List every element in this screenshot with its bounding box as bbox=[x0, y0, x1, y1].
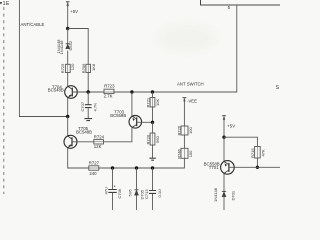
svg-text:R727: R727 bbox=[89, 161, 100, 166]
svg-text:120: 120 bbox=[70, 63, 75, 70]
node base/R706 junction bbox=[87, 90, 90, 93]
node junction +5V rail bbox=[66, 27, 69, 30]
wire T705 emitter to rail bbox=[68, 148, 89, 168]
svg-text:240: 240 bbox=[89, 171, 97, 176]
svg-text:1N4148: 1N4148 bbox=[213, 187, 218, 202]
resistor R715 47K bbox=[255, 147, 261, 159]
svg-text:R721: R721 bbox=[145, 97, 150, 107]
svg-text:R746: R746 bbox=[177, 148, 182, 158]
node ANT junction bbox=[66, 115, 69, 118]
wire R715 to base rail bbox=[256, 158, 258, 167]
resistor R721 10K bbox=[152, 92, 154, 98]
svg-text:C706: C706 bbox=[117, 188, 122, 198]
resistor R727 240 bbox=[89, 166, 99, 170]
wire T704 emitter down to ANT node bbox=[67, 98, 69, 117]
wire VEE to R726 bbox=[183, 101, 185, 126]
svg-text:R723: R723 bbox=[104, 84, 115, 89]
node +5V junction bbox=[222, 136, 225, 139]
svg-text:R726: R726 bbox=[177, 125, 182, 135]
node C706 junction bbox=[111, 166, 114, 169]
wire T703 collector up to rail bbox=[131, 92, 133, 116]
wire down to T705 bbox=[67, 117, 69, 137]
wire R720 to ground bbox=[152, 145, 154, 158]
svg-text:1E: 1E bbox=[3, 1, 10, 7]
wire R706 down to base node bbox=[87, 73, 89, 93]
node D705 junction bbox=[135, 166, 138, 169]
svg-text:BC558B: BC558B bbox=[110, 113, 126, 118]
transistor T701 BC558B bbox=[221, 161, 235, 175]
wire T701 emitter to D701 bbox=[223, 173, 225, 191]
resistor R720 560 bbox=[152, 122, 154, 133]
zener D705 5V6 bbox=[136, 168, 138, 189]
wire +5V down to junction bbox=[223, 120, 225, 138]
svg-text:ANT SWITCH: ANT SWITCH bbox=[177, 81, 204, 86]
ground (under C707) bbox=[84, 119, 92, 121]
svg-text:ANT/CABLE: ANT/CABLE bbox=[21, 22, 45, 27]
svg-text:47U: 47U bbox=[104, 187, 109, 194]
svg-text:BC548B: BC548B bbox=[48, 88, 64, 93]
wire dashed page-boundary line bbox=[3, 7, 5, 194]
capacitor C713 0.1U bbox=[152, 168, 154, 190]
wire T705 base to R724 bbox=[72, 141, 94, 143]
resistor R724 12K bbox=[94, 140, 104, 144]
svg-text:R720: R720 bbox=[145, 134, 150, 144]
node T703 collector junction bbox=[130, 90, 133, 93]
svg-text:0.1U: 0.1U bbox=[157, 189, 162, 198]
svg-text:100: 100 bbox=[188, 127, 193, 134]
resistor R725 120 bbox=[65, 64, 70, 72]
svg-text:10K: 10K bbox=[155, 99, 160, 106]
svg-text:-VEE: -VEE bbox=[187, 99, 197, 104]
wire ANT SWITCH rail to tuner box bbox=[114, 5, 237, 92]
wire ANT/CABLE vertical then right to T704 emitter bbox=[19, 0, 67, 117]
diode D552 1N4148 bbox=[66, 44, 70, 49]
transistor T703 BC558B bbox=[129, 116, 142, 129]
svg-text:R725: R725 bbox=[60, 63, 65, 73]
node R715/base junction bbox=[256, 166, 259, 169]
node C713 junction bbox=[151, 166, 154, 169]
wire branch to R715 bbox=[224, 137, 257, 146]
wire +5V junction down to T701 collector bbox=[223, 137, 225, 161]
wire R725 to T704 collector bbox=[67, 73, 69, 87]
transistor T705 BC548B bbox=[64, 135, 77, 148]
wire T703 base to R721/R720 node bbox=[137, 121, 153, 123]
wire D552 to R725 bbox=[67, 51, 69, 65]
svg-text:+5V: +5V bbox=[70, 9, 78, 14]
diode D701 1N4148 bbox=[222, 191, 226, 196]
node T703 base junction bbox=[151, 121, 154, 124]
svg-text:1N4148: 1N4148 bbox=[59, 40, 64, 55]
svg-text:12K: 12K bbox=[94, 144, 102, 149]
svg-text:1K8: 1K8 bbox=[91, 63, 96, 71]
transistor T704 BC548B bbox=[65, 86, 78, 99]
svg-text:560: 560 bbox=[155, 136, 160, 143]
wire +5V junction down to D552 bbox=[67, 29, 69, 44]
wire R726 to R746 bbox=[183, 135, 185, 148]
svg-text:D552: D552 bbox=[68, 40, 73, 50]
wire +5V down to junction bbox=[67, 6, 69, 29]
svg-text:47K: 47K bbox=[260, 149, 265, 156]
svg-text:BC548B: BC548B bbox=[76, 130, 92, 135]
node R721 junction bbox=[151, 90, 154, 93]
ground (under R720) bbox=[149, 158, 155, 160]
resistor R726 100 bbox=[181, 126, 188, 135]
svg-text:2.7K: 2.7K bbox=[104, 93, 113, 98]
capacitor C707 4.7N bbox=[87, 92, 89, 104]
power -VEE bbox=[183, 98, 187, 102]
power +5V (top) bbox=[66, 2, 70, 6]
svg-text:R706: R706 bbox=[81, 63, 86, 73]
resistor R723 2.7K bbox=[104, 89, 114, 93]
wire branch right to R706 column bbox=[68, 29, 89, 65]
svg-text:T701: T701 bbox=[209, 165, 219, 170]
svg-text:C707: C707 bbox=[80, 101, 85, 111]
svg-text:4.7N: 4.7N bbox=[92, 103, 97, 112]
wire R724 to T703 emitter bbox=[104, 128, 132, 142]
svg-text:+5V: +5V bbox=[227, 124, 235, 129]
svg-text:C713: C713 bbox=[144, 189, 149, 199]
capacitor C706 47U bbox=[112, 168, 114, 189]
tuner box (top right) bbox=[201, 0, 281, 5]
svg-text:5V6: 5V6 bbox=[128, 189, 133, 197]
wire T701 base to R715 node and edge bbox=[229, 166, 280, 168]
wire R721 to base node bbox=[152, 107, 154, 122]
svg-text:R724: R724 bbox=[94, 134, 105, 139]
wire R746 down to emitter rail bbox=[99, 158, 185, 168]
resistor R746 100 bbox=[181, 148, 188, 158]
svg-text:R715: R715 bbox=[250, 148, 255, 158]
wire T704 base to ANT SWITCH rail bbox=[72, 91, 104, 93]
svg-text:D701: D701 bbox=[230, 190, 235, 200]
svg-text:100: 100 bbox=[188, 150, 193, 157]
resistor R706 1K8 bbox=[86, 64, 91, 72]
power +5V (right) bbox=[222, 116, 226, 120]
